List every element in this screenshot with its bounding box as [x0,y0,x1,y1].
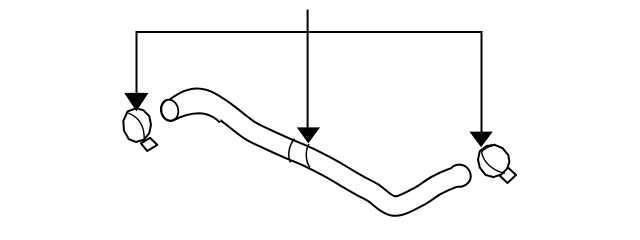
clamp left: band inner edge [128,113,144,140]
hose hump inner-bend edge [174,113,221,122]
arrowhead middle [297,127,320,143]
collar line right [306,144,310,167]
arrowhead left [124,93,148,112]
hose hump inner-bend lip [171,105,221,124]
hose open end face [159,98,180,122]
arrowhead right [469,132,492,148]
clamp right: band inner edge [482,152,505,173]
clamp right: ring [478,145,509,177]
collar line left [289,139,295,163]
wire: left drop [136,31,138,94]
hose body [173,98,472,206]
clamp right: screw tab [499,167,516,183]
wire: vertical stem from top [307,10,309,130]
hose open end outer rim (bold left arc) [161,100,175,121]
clamp left: screw tab [141,138,157,151]
clamp left: ring [123,108,151,142]
hose right end cap flare (outer) [447,164,471,188]
hose right end cap flare (inner) [449,166,469,186]
clamp right: band inner edge top [482,146,494,153]
wire: right drop [481,31,483,132]
wire: horizontal leader bar [137,31,482,33]
